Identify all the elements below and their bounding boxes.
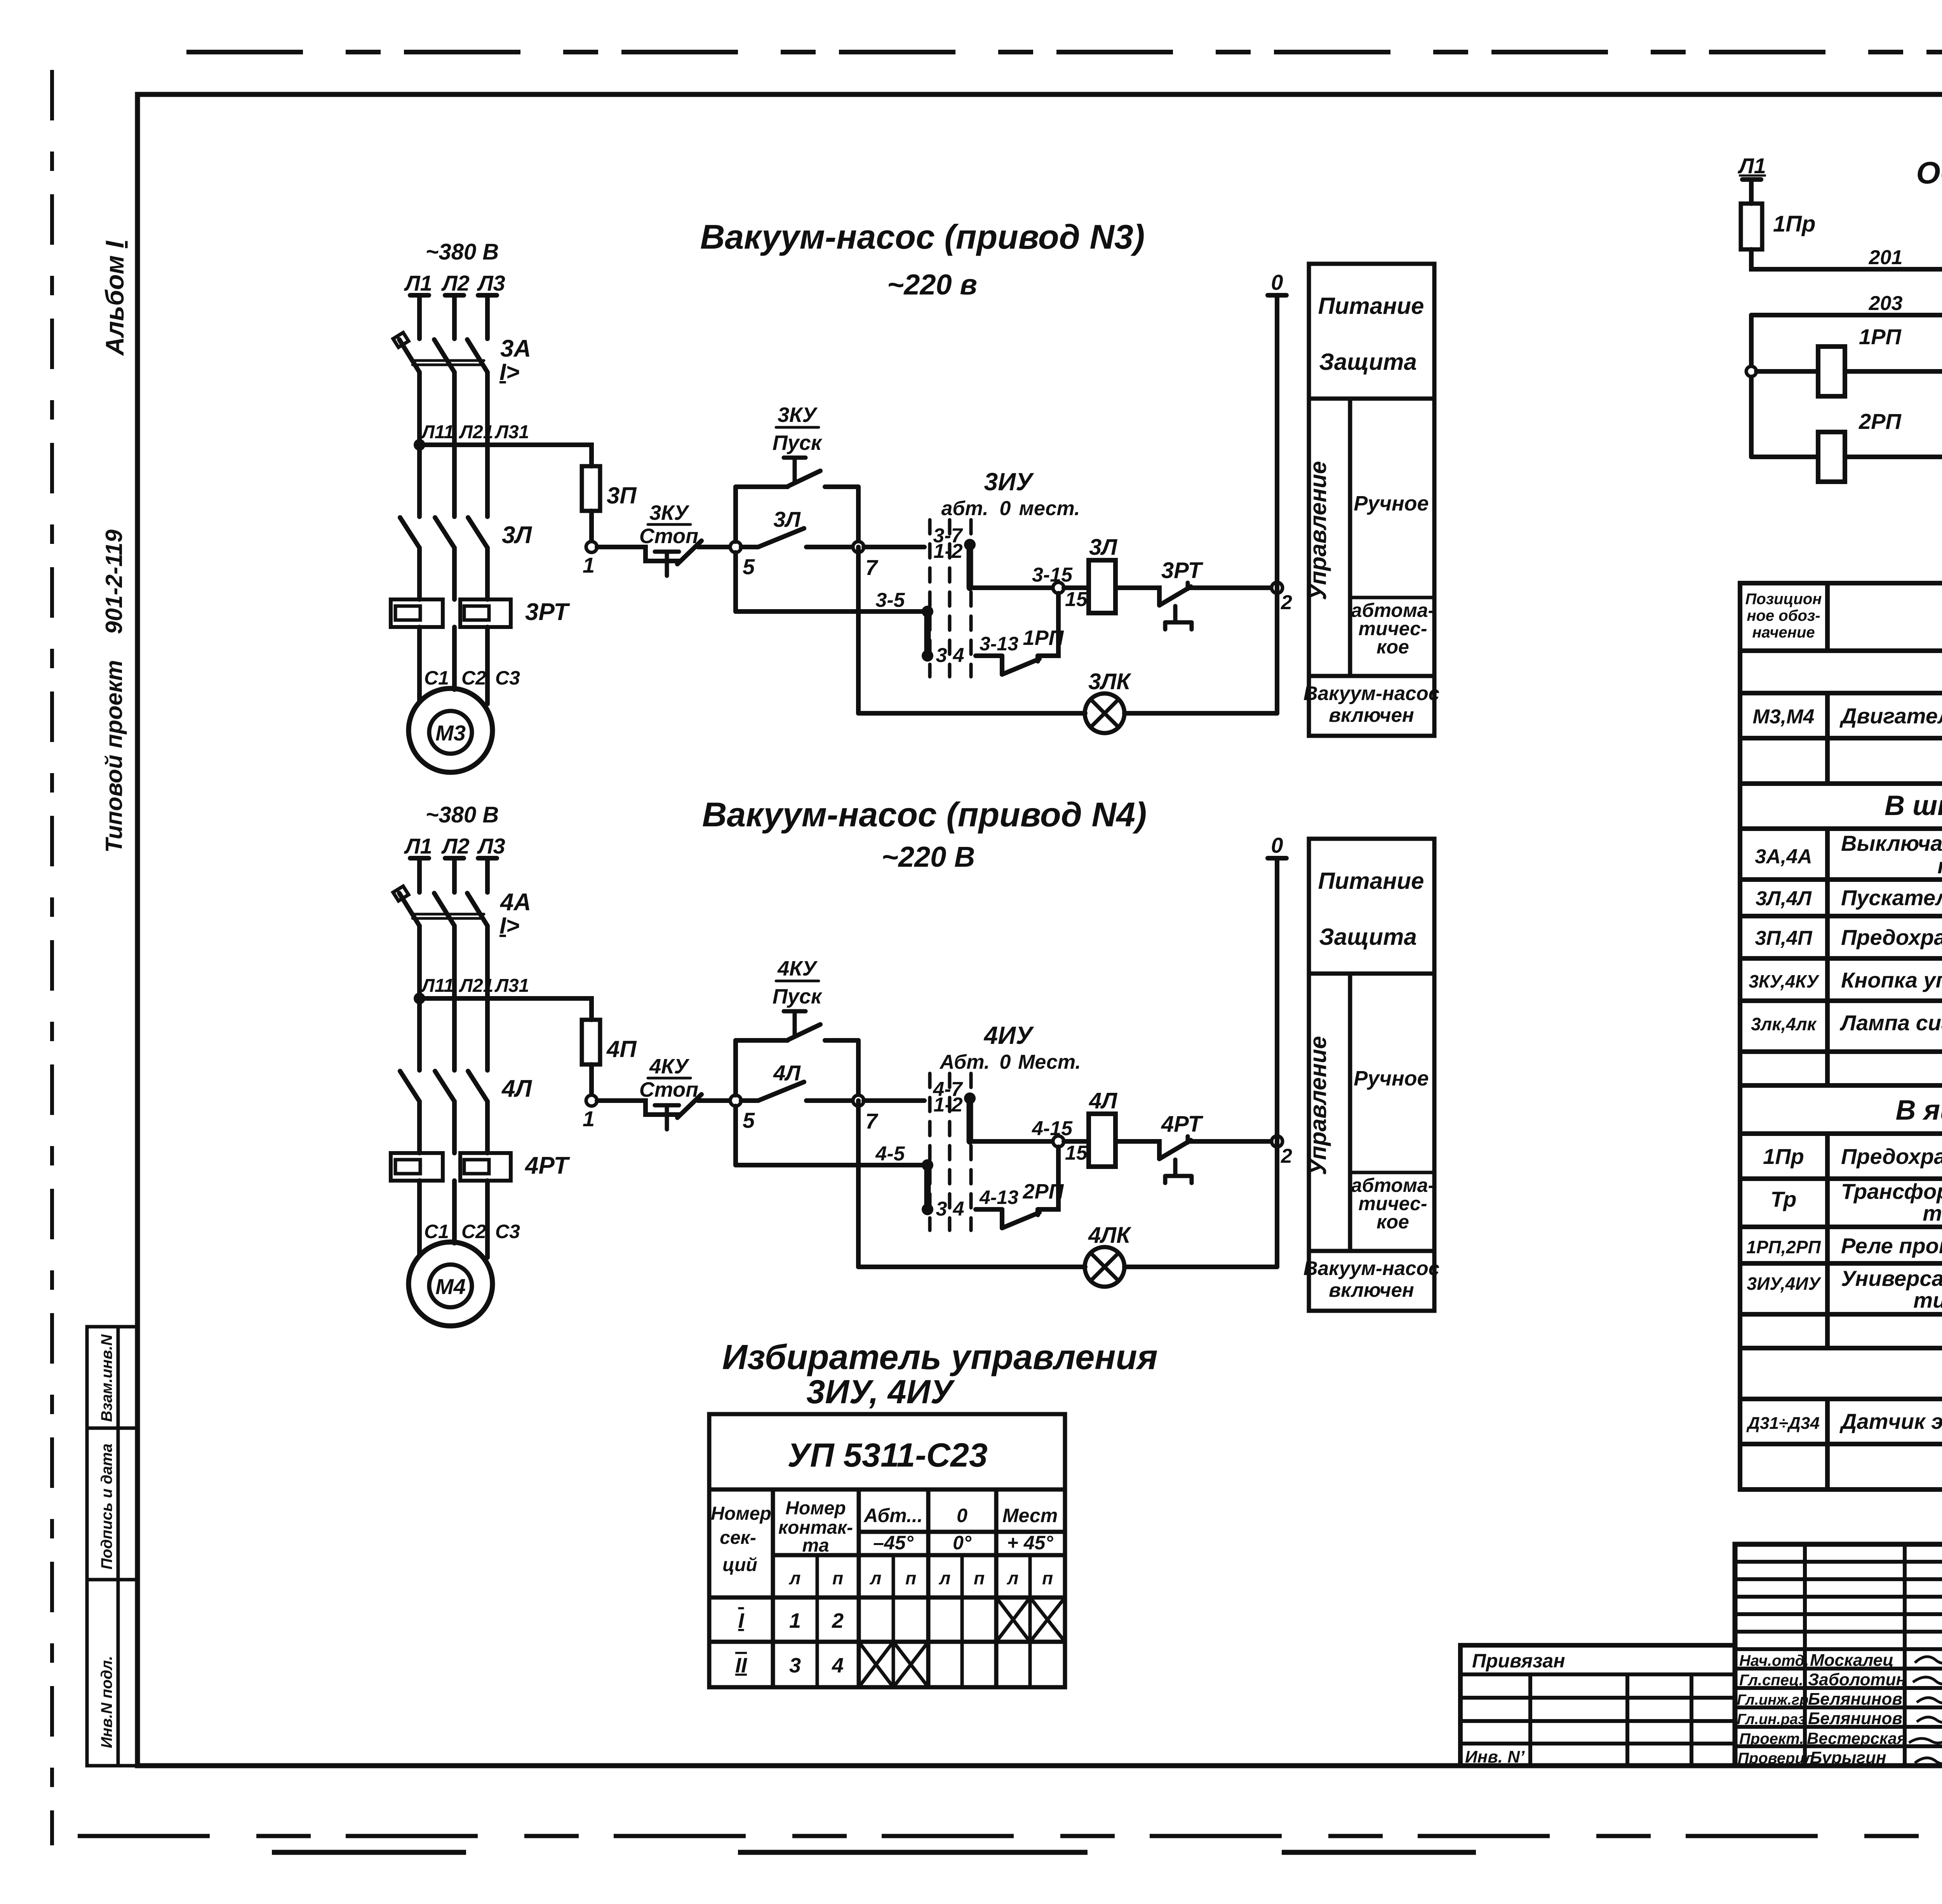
svg-text:I: I: [738, 1609, 744, 1632]
selector contact 3-4 bar: [924, 1165, 931, 1209]
wire fuse to node1: [589, 1064, 594, 1095]
lower branch riser from node5: [733, 552, 738, 611]
selector contact 1-2 top dot: [964, 539, 976, 550]
wire bus to relay coil 1РП: [1756, 369, 1818, 374]
circuit breaker 3A crossbar: [412, 361, 484, 365]
svg-text:5: 5: [743, 554, 755, 579]
signature table row line 5: [1735, 1744, 1942, 1748]
contactor 4Л pole2 blade: [435, 1071, 454, 1101]
svg-text:4Л: 4Л: [501, 1075, 532, 1102]
wire bus to relay coil 2РП: [1751, 455, 1818, 459]
svg-text:Белянинов: Белянинов: [1808, 1709, 1902, 1728]
selector dashed line 1: [928, 1073, 932, 1230]
parts table row line b6: [1740, 1083, 1942, 1088]
selector table subcolumn a: [816, 1555, 819, 1687]
wire phase3 low: [485, 1101, 490, 1153]
signal lamp 4ЛК cross: [1091, 1253, 1119, 1281]
thermal relay 3РТ heater1: [391, 599, 443, 627]
wire phase1 low: [417, 1101, 422, 1153]
svg-text:Лампа сигнальная типа СС-3: Лампа сигнальная типа СС-3: [1839, 1010, 1942, 1035]
svg-text:3-15: 3-15: [1032, 564, 1073, 586]
start button branch wire left: [736, 484, 788, 489]
wire 3РТ to node2: [1188, 585, 1272, 590]
wire coil line from selector: [970, 585, 1053, 590]
svg-text:~220 В: ~220 В: [882, 841, 975, 873]
wire coil to 4РТ: [1115, 1141, 1159, 1159]
svg-text:л: л: [1007, 1568, 1019, 1588]
selector table line under row I: [709, 1640, 1065, 1644]
wire phase3 mid: [485, 372, 490, 517]
thermal relay 4РТ heater2 inner: [464, 1160, 489, 1174]
selector dashed line 2: [948, 520, 952, 677]
contactor aux contact 3Л blade: [758, 528, 804, 547]
svg-text:Защита: Защита: [1319, 924, 1416, 950]
svg-text:4: 4: [832, 1654, 844, 1677]
start button 3КУ blade: [788, 471, 820, 486]
svg-text:Л2: Л2: [441, 271, 470, 295]
svg-text:Мест.: Мест.: [1018, 1051, 1081, 1073]
parts table row line c4: [1740, 1312, 1942, 1317]
parallel branch right riser: [856, 487, 861, 547]
svg-text:4-5: 4-5: [875, 1143, 905, 1165]
signature squiggle 1: [1915, 1652, 1942, 1663]
svg-text:В ящике управления ЯУ: В ящике управления ЯУ: [1896, 1095, 1942, 1126]
svg-text:15: 15: [1065, 588, 1088, 611]
circuit breaker 3A pole2 blade: [434, 340, 454, 372]
start button branch wire right: [825, 484, 858, 489]
wire phase3 top: [485, 858, 490, 892]
wire phase2 mid: [452, 372, 457, 517]
column divider Ручное/Автоматическое: [1350, 596, 1434, 599]
svg-text:2: 2: [1281, 591, 1292, 614]
wire motor lead2: [452, 1181, 457, 1243]
svg-text:203: 203: [1869, 292, 1903, 315]
svg-text:Гл.ин.раз: Гл.ин.раз: [1737, 1711, 1806, 1728]
svg-text:3ЛК: 3ЛК: [1088, 669, 1131, 694]
junction dot at tap: [414, 993, 425, 1004]
parts table row line b1: [1740, 877, 1942, 882]
margin table box: [87, 1327, 137, 1766]
привязан box outline: [1460, 1645, 1735, 1766]
привязан row line 3: [1460, 1719, 1735, 1723]
svg-text:II: II: [735, 1654, 747, 1677]
lamp branch wire right: [1124, 711, 1277, 716]
terminal tick L2: [445, 293, 464, 298]
wire fuse to node1: [589, 511, 594, 542]
signal lamp 3ЛК cross: [1091, 699, 1119, 727]
parallel branch left riser: [733, 1040, 738, 1095]
svg-text:Типовой проект 901-2-119: Типовой проект 901-2-119: [101, 529, 127, 853]
thermal contact 3РТ blade: [1159, 587, 1191, 605]
column divider under Защита: [1309, 972, 1434, 976]
wire phase3 low: [485, 548, 490, 599]
svg-text:Вакуум-насос (привод N4): Вакуум-насос (привод N4): [702, 795, 1147, 834]
svg-text:3Л: 3Л: [773, 507, 801, 531]
svg-text:–45°: –45°: [873, 1532, 914, 1554]
wire phase2 mid: [452, 926, 457, 1070]
selector contact 1-2 top dot: [964, 1092, 976, 1104]
svg-text:Вестерская: Вестерская: [1807, 1729, 1907, 1747]
svg-text:3Л: 3Л: [1089, 535, 1117, 560]
svg-text:0: 0: [1000, 497, 1011, 520]
svg-text:Тр: Тр: [1770, 1187, 1796, 1211]
svg-text:Пускатель магнитный типа ПМ: Пускатель магнитный типа ПМЕ-112: [1841, 885, 1942, 910]
svg-text:Питание: Питание: [1318, 868, 1424, 894]
svg-text:Стоп: Стоп: [639, 524, 698, 548]
svg-text:1: 1: [583, 553, 595, 577]
svg-text:1Пр: 1Пр: [1773, 211, 1815, 237]
thermal contact 4РТ blade: [1159, 1140, 1191, 1159]
signature table thin row 5: [1735, 1630, 1942, 1634]
svg-text:Защита: Защита: [1319, 349, 1416, 375]
fuse 1Пр body: [1741, 204, 1762, 249]
parts table row line b5: [1740, 1049, 1942, 1054]
svg-text:Датчик электродный: Датчик электродный: [1839, 1409, 1942, 1434]
wire node15 to coil: [1064, 1139, 1089, 1144]
wire 4РТ to node2: [1188, 1139, 1272, 1144]
привязан column 1: [1528, 1674, 1532, 1766]
wire stop to node5: [698, 1098, 730, 1103]
column divider under Защита: [1309, 397, 1434, 401]
svg-text:1: 1: [789, 1609, 801, 1632]
selector table subcolumn d: [1028, 1555, 1032, 1687]
selector table subcolumn b: [892, 1555, 895, 1687]
svg-text:С2: С2: [461, 667, 486, 689]
parts table row line c2: [1740, 1225, 1942, 1229]
wire phase2 top: [452, 295, 457, 339]
circuit breaker 3A pole1 blade: [399, 340, 419, 372]
wire phase3 mid: [485, 926, 490, 1070]
svg-text:Л2: Л2: [441, 834, 470, 858]
parts table row line b3: [1740, 956, 1942, 961]
svg-text:I>: I>: [499, 913, 520, 939]
wire coil to 3РТ: [1115, 588, 1159, 605]
svg-text:Проект.: Проект.: [1739, 1730, 1804, 1747]
selector contact 3-4 top dot: [922, 1159, 933, 1171]
svg-text:УП 5311-С23: УП 5311-С23: [787, 1437, 987, 1474]
svg-text:С3: С3: [495, 1221, 520, 1242]
svg-text:В шкафу 3 шу (шу5103-03В2Е): В шкафу 3 шу (шу5103-03В2Е): [1885, 790, 1942, 821]
svg-text:л: л: [939, 1568, 951, 1588]
svg-text:М4: М4: [435, 1274, 466, 1299]
start button branch wire right: [825, 1038, 858, 1043]
svg-text:3-13: 3-13: [980, 633, 1018, 655]
parts table row line a2: [1740, 736, 1942, 740]
svg-text:+ 45°: + 45°: [1007, 1532, 1054, 1554]
column divider above Вакуум-насос: [1309, 1249, 1434, 1253]
wire 3-7: [864, 1098, 924, 1103]
contactor aux contact 4Л blade: [758, 1082, 804, 1101]
circuit breaker 4A trip lug: [393, 886, 409, 901]
svg-text:4ЛК: 4ЛК: [1088, 1223, 1131, 1248]
svg-text:типа ТБС3 - 0.063: типа ТБС3 - 0.063: [1923, 1201, 1942, 1225]
svg-text:Управление: Управление: [1305, 1036, 1331, 1175]
node 2: [1272, 582, 1282, 593]
signature table row line 4: [1735, 1725, 1942, 1729]
motor М3 inner circle: [429, 711, 472, 754]
svg-text:3РТ: 3РТ: [1161, 558, 1204, 583]
contactor aux contact wire right: [806, 1098, 853, 1103]
svg-text:4ИУ: 4ИУ: [983, 1021, 1035, 1049]
svg-text:Ручное: Ручное: [1354, 492, 1429, 515]
svg-text:0: 0: [957, 1505, 968, 1526]
svg-text:201: 201: [1869, 246, 1903, 269]
margin table row line 2: [87, 1578, 137, 1582]
svg-text:4П: 4П: [606, 1036, 637, 1062]
thermal contact 4РТ actuator: [1165, 1160, 1192, 1183]
start button 3КУ actuator: [784, 458, 806, 483]
signature squiggle 2: [1913, 1677, 1942, 1684]
svg-text:Избиратель управления: Избиратель управления: [722, 1338, 1157, 1377]
contactor coil 4Л: [1089, 1114, 1115, 1167]
svg-text:4РТ: 4РТ: [1161, 1111, 1204, 1137]
left bus node: [1746, 366, 1756, 376]
column divider above Вакуум-насос: [1309, 674, 1434, 678]
wire phase3 top: [485, 295, 490, 339]
relay coil 1РП: [1818, 347, 1845, 396]
node 5: [730, 542, 741, 552]
parts table column 1 segments: [1825, 583, 1830, 1489]
relay contact 2РП step: [1000, 1209, 1004, 1228]
svg-text:Взам.инв.N: Взам.инв.N: [98, 1334, 115, 1422]
selector table line under angles: [773, 1553, 1065, 1557]
wire phase1 top: [417, 295, 422, 339]
column inner vertical: [1348, 399, 1352, 676]
svg-text:Кнопка управления типа КСГ1-1: Кнопка управления типа КСГ1-12: [1841, 968, 1942, 992]
neutral terminal tick: [1268, 293, 1286, 298]
X mark row II cell абт-л: [859, 1642, 893, 1687]
terminal tick L3: [478, 856, 497, 861]
parts table row line a1: [1740, 691, 1942, 695]
thermal relay 3РТ heater1 inner: [395, 606, 420, 620]
wire 3-5: [736, 1163, 924, 1167]
wire 203 secondary left: [1751, 313, 1942, 317]
terminal tick L3: [478, 293, 497, 298]
wire 2РП to node15 riser: [1038, 1147, 1058, 1209]
signature table row line 0: [1735, 1647, 1942, 1651]
svg-text:3: 3: [936, 644, 947, 667]
selector dashed line 3: [969, 1073, 973, 1230]
svg-text:1РП: 1РП: [1859, 324, 1902, 349]
parts table row line a3: [1740, 781, 1942, 786]
X mark row I cell мест-л: [996, 1597, 1030, 1642]
start button fraction bar: [776, 980, 819, 982]
thermal relay 3РТ heater2: [460, 599, 511, 627]
parts table row line c0: [1740, 1131, 1942, 1136]
outer dashed boundary top: [186, 50, 1942, 54]
relay coil 2РП: [1818, 432, 1845, 482]
wire phase2 top: [452, 858, 457, 892]
wire coil line from selector: [970, 1139, 1053, 1144]
привязан row line 4: [1460, 1742, 1735, 1745]
column box outline: [1309, 839, 1434, 1311]
wire phase2 low: [452, 1101, 457, 1153]
svg-text:Инв.N подл.: Инв.N подл.: [98, 1656, 115, 1748]
svg-text:3Л,4Л: 3Л,4Л: [1756, 887, 1812, 910]
contactor 3Л pole2 blade: [435, 517, 454, 548]
contactor 4Л pole3 blade: [468, 1071, 487, 1101]
X mark row II cell абт-п: [893, 1642, 928, 1687]
stop button 3КУ blade: [677, 541, 701, 564]
selector contact 3-4 bottom dot: [922, 650, 933, 662]
svg-text:4-15: 4-15: [1032, 1117, 1073, 1140]
relay contact 2РП terminal: [1035, 1209, 1040, 1215]
svg-text:Д31÷Д34: Д31÷Д34: [1746, 1414, 1820, 1433]
relay contact 1РП terminal: [1035, 656, 1040, 661]
circuit breaker 4A pole2 blade: [434, 893, 454, 926]
wire tap to fuse: [419, 445, 592, 466]
selector table line under position names: [859, 1530, 1065, 1534]
svg-text:0: 0: [1271, 270, 1283, 294]
motor М3 outer circle: [409, 688, 492, 772]
margin table divider vertical: [117, 1327, 120, 1766]
svg-text:4Л: 4Л: [773, 1061, 801, 1085]
wire phase1 low: [417, 548, 422, 599]
parallel branch left riser: [733, 487, 738, 542]
neutral terminal tick: [1268, 856, 1286, 861]
wire motor lead1: [417, 1181, 422, 1255]
svg-text:1-2: 1-2: [933, 540, 962, 563]
svg-text:Стоп: Стоп: [639, 1078, 698, 1101]
selector contact 3-4 bar: [924, 611, 931, 656]
svg-text:3ИУ,4ИУ: 3ИУ,4ИУ: [1747, 1273, 1822, 1294]
lamp branch riser: [856, 547, 861, 713]
svg-text:4РТ: 4РТ: [524, 1152, 570, 1179]
parts table outer box: [1740, 583, 1942, 1489]
svg-text:Проверил: Проверил: [1738, 1750, 1814, 1767]
svg-text:типа АК63-3мг: типа АК63-3мг: [1937, 854, 1942, 878]
wire 3-7: [864, 545, 924, 549]
selector contact 1-2 bar: [967, 1098, 973, 1141]
svg-text:Гл.инж.гр: Гл.инж.гр: [1737, 1692, 1808, 1708]
start button 4КУ blade: [788, 1024, 820, 1040]
svg-text:3А: 3А: [500, 335, 531, 362]
wire motor lead1: [417, 627, 422, 702]
svg-text:Москалец: Москалец: [1810, 1651, 1894, 1670]
terminal tick L1: [410, 856, 429, 861]
terminal Л1 tick: [1742, 177, 1761, 182]
svg-text:Л3: Л3: [477, 271, 505, 295]
signature table thin row 1: [1735, 1560, 1942, 1564]
wire 1РП to node15 riser: [1038, 593, 1058, 656]
svg-text:3КУ: 3КУ: [649, 501, 689, 524]
wire phase1 mid: [417, 372, 422, 517]
wire motor lead3: [485, 1181, 490, 1258]
signature table column line 1: [1803, 1544, 1807, 1766]
svg-text:7: 7: [865, 555, 879, 580]
outer dashed boundary left: [50, 70, 54, 1845]
svg-text:Бурыгин: Бурыгин: [1810, 1748, 1886, 1767]
wire phase1 top: [417, 858, 422, 892]
svg-text:3: 3: [936, 1198, 947, 1220]
svg-text:3П,4П: 3П,4П: [1755, 927, 1813, 949]
motor М4 inner circle: [429, 1265, 472, 1307]
svg-text:Ручное: Ручное: [1354, 1067, 1429, 1090]
signature table thin row 2: [1735, 1577, 1942, 1581]
lamp branch wire right: [1124, 1265, 1277, 1269]
svg-text:4: 4: [953, 644, 964, 667]
selector table title row line: [709, 1488, 1065, 1492]
contactor aux contact 3Л wire left: [741, 545, 758, 549]
wire node1 to stop button: [597, 547, 680, 561]
svg-text:15: 15: [1065, 1142, 1088, 1164]
relay contact 2РП blade: [1002, 1212, 1039, 1228]
wire 201: [1751, 249, 1942, 269]
selector dashed line 3: [969, 520, 973, 677]
svg-text:Л11: Л11: [421, 422, 454, 442]
svg-text:С1: С1: [424, 667, 449, 689]
svg-text:абт.: абт.: [941, 497, 988, 520]
selector contact 3-4 bottom dot: [922, 1204, 933, 1215]
wire 3-5: [736, 609, 924, 614]
svg-text:п: п: [832, 1568, 843, 1588]
selector table column line 4: [994, 1489, 999, 1687]
node 7: [853, 1095, 864, 1106]
svg-text:3РТ: 3РТ: [525, 599, 570, 625]
wire 3-13: [976, 653, 1002, 658]
margin table row line 1: [87, 1427, 137, 1430]
svg-text:Заболотин: Заболотин: [1808, 1670, 1906, 1689]
signature table thin row 3: [1735, 1595, 1942, 1599]
svg-text:Предохранитель типа ПРС-6-П: Предохранитель типа ПРС-6-П: [1841, 1144, 1942, 1169]
wire node15 to coil: [1064, 585, 1089, 590]
stop button 3КУ actuator: [655, 552, 679, 576]
svg-text:4КУ: 4КУ: [649, 1055, 689, 1078]
svg-text:~220 в: ~220 в: [887, 268, 977, 301]
thermal contact 4РТ hook: [1186, 1136, 1190, 1143]
outer dashed boundary bottom: [78, 1834, 1942, 1838]
selector dashed line 2: [948, 1073, 952, 1230]
signature squiggle 5: [1909, 1738, 1942, 1743]
svg-text:Подпись и дата: Подпись и дата: [98, 1444, 115, 1570]
relay contact 1РП step: [1000, 656, 1004, 674]
signature table row line 3: [1735, 1705, 1942, 1709]
thermal relay 3РТ heater2 inner: [464, 606, 489, 620]
parts table row line d1: [1740, 1397, 1942, 1401]
motor М4 outer circle: [409, 1242, 492, 1326]
svg-text:Двигатель типа А02-22-4 (А0Л2-: Двигатель типа А02-22-4 (А0Л2-22-4): [1839, 704, 1942, 728]
svg-text:Л1: Л1: [404, 271, 432, 295]
outer dashed boundary bottom2: [272, 1850, 1709, 1855]
node 2: [1272, 1136, 1282, 1147]
svg-text:4-13: 4-13: [979, 1186, 1018, 1208]
wire 3-13: [976, 1207, 1002, 1212]
svg-text:Реле промежуточное типа РПУ: Реле промежуточное типа РПУ-2: [1841, 1233, 1942, 1258]
signature squiggle 6: [1915, 1758, 1942, 1764]
svg-text:4: 4: [953, 1198, 964, 1220]
svg-text:Л31: Л31: [494, 422, 529, 442]
thermal relay 4РТ heater2: [460, 1153, 511, 1181]
signature table row line 1: [1735, 1667, 1942, 1671]
selector contact 1-2 bar: [967, 545, 973, 588]
wire tap to fuse: [419, 998, 592, 1020]
svg-text:Управление: Управление: [1305, 461, 1331, 600]
svg-text:п: п: [905, 1568, 916, 1588]
neutral wire 0: [1275, 295, 1279, 713]
selector table column line 3: [926, 1489, 931, 1687]
svg-text:4А: 4А: [499, 889, 531, 916]
lamp branch wire left: [858, 1265, 1085, 1269]
contactor 3Л pole1 blade: [400, 517, 419, 548]
svg-text:Белянинов: Белянинов: [1808, 1690, 1902, 1709]
lamp branch wire left: [858, 711, 1085, 716]
svg-text:0°: 0°: [953, 1532, 972, 1554]
wire coil to node 204: [1845, 369, 1942, 374]
terminal tick L2: [445, 856, 464, 861]
selector table column line 2: [857, 1489, 861, 1687]
lamp branch riser: [856, 1101, 861, 1267]
svg-text:3ИУ, 4ИУ: 3ИУ, 4ИУ: [806, 1373, 955, 1411]
